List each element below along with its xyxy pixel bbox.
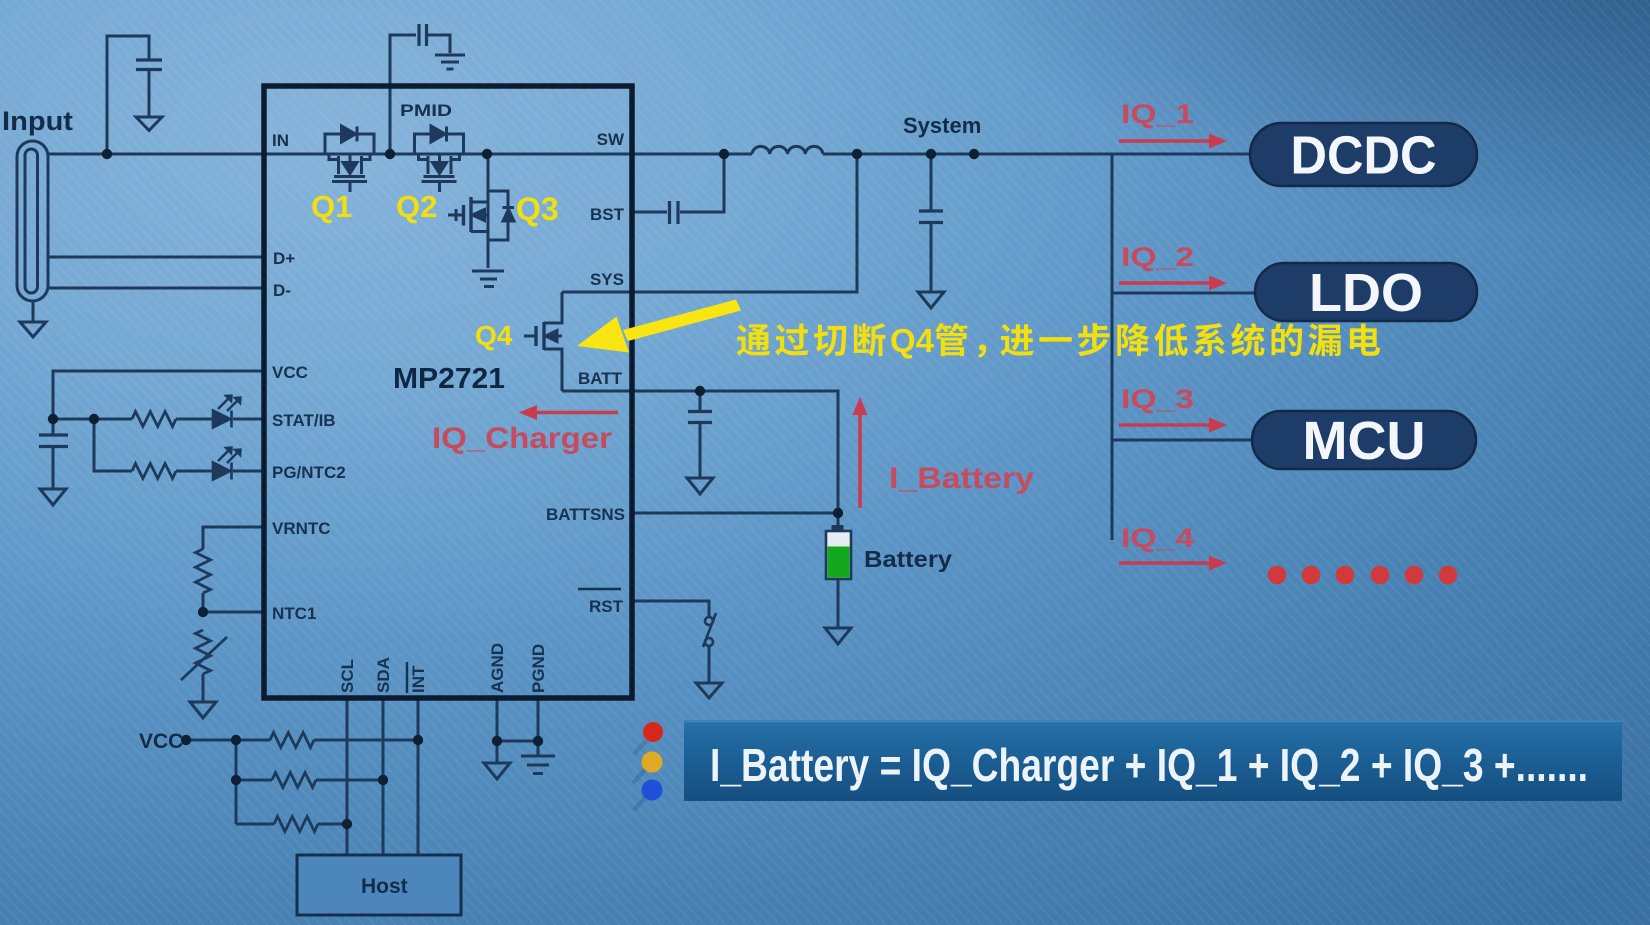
resistor R_pg <box>132 464 176 479</box>
node junction (94,419) <box>89 414 99 424</box>
svg-text:BATT: BATT <box>578 369 623 388</box>
svg-text:IN: IN <box>272 131 289 150</box>
svg-text:VCC: VCC <box>139 730 183 753</box>
arrow IQ_1 <box>1119 134 1227 149</box>
resistor R_stat <box>132 412 176 427</box>
wire BATTSNS <box>632 512 838 515</box>
svg-text:MCU: MCU <box>1303 411 1426 471</box>
node junction (186,740) <box>181 735 191 745</box>
wire SCL <box>346 698 349 855</box>
wire VRNTC net <box>203 527 264 612</box>
LED D_stat <box>213 395 241 428</box>
resistor R_sda <box>272 773 316 788</box>
svg-text:IQ_3: IQ_3 <box>1121 384 1194 414</box>
svg-text:SW: SW <box>597 130 625 149</box>
ground (AGND) <box>484 763 510 779</box>
annotation text (Chinese): 通过切断Q4管，进一步降低系统的漏电 <box>737 322 1380 359</box>
wire D- <box>48 287 264 290</box>
svg-text:D-: D- <box>273 281 291 300</box>
node junction (700,391) <box>695 386 705 396</box>
svg-text:PGND: PGND <box>529 644 548 693</box>
svg-text:Q4: Q4 <box>475 320 513 351</box>
svg-text:LDO: LDO <box>1309 263 1423 323</box>
svg-text:RST: RST <box>589 597 624 616</box>
node junction (383,780) <box>378 775 388 785</box>
wire IN / SW rail <box>48 153 1250 156</box>
resistor R_vrntc <box>196 549 211 593</box>
svg-text:IQ_1: IQ_1 <box>1121 99 1194 129</box>
svg-text:Q3: Q3 <box>516 191 559 227</box>
resistor R_int <box>270 733 314 748</box>
block DCDC <box>1250 123 1477 186</box>
wire PG/NTC2 net <box>94 419 264 471</box>
wire SDA <box>382 698 385 855</box>
arrow IQ_Charger <box>519 405 618 420</box>
wire LDO branch <box>1112 292 1256 295</box>
svg-text:PMID: PMID <box>400 101 452 120</box>
wire PMID branch <box>390 35 450 154</box>
capacitor C_sys <box>919 211 943 223</box>
ground (PGND, earth style) <box>521 756 555 774</box>
node junction (390,154) <box>385 149 395 159</box>
svg-text:BST: BST <box>590 205 625 224</box>
wire NTC1 net <box>203 612 264 702</box>
wire INT <box>417 698 420 855</box>
svg-text:IQ_2: IQ_2 <box>1121 242 1194 272</box>
Host box <box>297 855 461 915</box>
capacitor C_vcc <box>39 435 68 447</box>
formula bar <box>684 720 1622 801</box>
wire VCC pin branch <box>53 371 264 489</box>
node junction (107,154) <box>102 149 112 159</box>
node junction (538,741) <box>533 736 543 746</box>
ground (RST) <box>696 683 722 698</box>
wire system cap branch <box>930 154 933 292</box>
IC U1 MP2721 body <box>264 86 632 698</box>
svg-text:Host: Host <box>361 875 408 898</box>
wire SYS loop <box>562 154 857 292</box>
wire STAT/IB net <box>53 418 264 421</box>
svg-text:PG/NTC2: PG/NTC2 <box>272 463 346 482</box>
node junction (497,741) <box>492 736 502 746</box>
capacitor C_batt <box>688 412 712 423</box>
resistor R_scl <box>274 817 318 832</box>
svg-text:Input: Input <box>2 106 73 136</box>
ground (VCC cap) <box>40 489 66 505</box>
node junction (53,419) <box>48 414 58 424</box>
arrow IQ_3 <box>1119 418 1227 433</box>
wire RST branch <box>632 601 709 683</box>
capacitor C_pmid <box>419 24 427 46</box>
block MCU <box>1252 411 1476 469</box>
arrow IQ_4 <box>1119 556 1227 571</box>
wire input bypass branch <box>107 36 149 154</box>
node junction (857,154) <box>852 149 862 159</box>
svg-text:SYS: SYS <box>590 270 624 289</box>
node junction (236,780) <box>231 775 241 785</box>
node junction (974,154) <box>969 149 979 159</box>
LED D_pg <box>213 447 241 480</box>
wire load bus <box>1111 154 1114 540</box>
switch S1 (RST) <box>703 613 716 647</box>
node junction (203,612) <box>198 607 208 617</box>
svg-text:STAT/IB: STAT/IB <box>272 411 336 430</box>
svg-text:SDA: SDA <box>374 657 393 693</box>
node junction (236,740) <box>231 735 241 745</box>
svg-text:VRNTC: VRNTC <box>272 519 331 538</box>
ground (NTC) <box>190 702 216 718</box>
node junction (724,154) <box>719 149 729 159</box>
annotation arrow (yellow) <box>577 300 741 353</box>
svg-text:VCC: VCC <box>272 363 308 382</box>
node junction (838,513) <box>833 508 843 518</box>
arrow I_Battery <box>853 397 868 508</box>
svg-text:DCDC: DCDC <box>1291 126 1437 186</box>
ground (input bypass) <box>136 117 162 131</box>
ground (system cap) <box>918 292 944 308</box>
wire BATT <box>562 391 838 513</box>
capacitor C_in <box>136 60 162 70</box>
ground (battery) <box>825 628 851 644</box>
svg-text:Q1: Q1 <box>311 189 352 224</box>
transistor Q3 <box>448 154 514 268</box>
svg-text:I_Battery: I_Battery <box>889 462 1034 495</box>
wire BST branch <box>632 154 724 212</box>
svg-text:INT: INT <box>409 665 428 693</box>
node junction (931,154) <box>926 149 936 159</box>
svg-text:AGND: AGND <box>488 643 507 693</box>
input connector J1 <box>17 141 48 337</box>
wire AGND PGND <box>497 698 538 763</box>
svg-text:SCL: SCL <box>338 659 357 693</box>
transistor Q1 <box>325 126 374 192</box>
node junction (487,154) <box>482 149 492 159</box>
svg-text:Battery: Battery <box>864 546 952 572</box>
capacitor C_bst <box>670 201 679 224</box>
node junction (347,824) <box>342 819 352 829</box>
svg-text:IQ_Charger: IQ_Charger <box>432 422 612 455</box>
svg-text:IQ_4: IQ_4 <box>1121 523 1194 553</box>
wire D+ <box>48 256 264 259</box>
svg-text:NTC1: NTC1 <box>272 604 316 623</box>
svg-text:System: System <box>903 113 981 138</box>
wire battery stem <box>837 513 840 628</box>
wire Q4 source to BATT <box>544 349 562 391</box>
svg-text:MP2721: MP2721 <box>393 363 505 395</box>
inductor L1 <box>752 146 823 154</box>
svg-text:I_Battery = IQ_Charger + IQ_1: I_Battery = IQ_Charger + IQ_1 + IQ_2 + I… <box>710 739 1588 791</box>
node junction (418,740) <box>413 735 423 745</box>
svg-text:Q4: Q4 <box>890 322 935 359</box>
svg-text:BATTSNS: BATTSNS <box>546 505 625 524</box>
ellipsis dots (more loads) <box>1268 566 1458 585</box>
arrow IQ_2 <box>1119 276 1227 291</box>
wire MCU branch <box>1112 439 1253 442</box>
block LDO <box>1255 263 1477 321</box>
svg-text:D+: D+ <box>273 249 295 268</box>
wire BATT cap branch <box>699 391 702 478</box>
wire VCC pull-up rail <box>186 740 418 824</box>
svg-text:Q2: Q2 <box>396 189 437 224</box>
ground (Q3, earth style) <box>472 271 504 287</box>
logo mark (three dots) <box>633 722 663 810</box>
battery BT1 <box>826 525 851 579</box>
transistor Q4 <box>524 322 562 350</box>
transistor Q2 <box>415 126 464 192</box>
ground (PMID, earth style) <box>435 55 465 69</box>
ground (BATT cap) <box>687 478 713 494</box>
wire Q4 drain to SYS <box>544 292 562 323</box>
thermistor RT1 <box>196 630 211 674</box>
